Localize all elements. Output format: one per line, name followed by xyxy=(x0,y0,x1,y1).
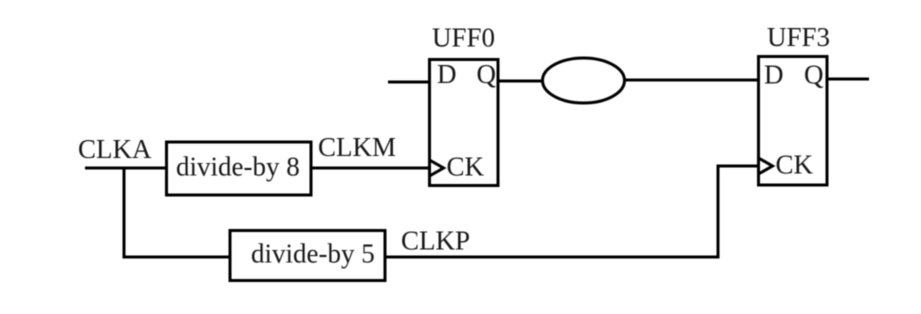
svg-text:Q: Q xyxy=(477,59,497,89)
wire CLKA input stub xyxy=(85,167,166,170)
wire UFF0 Q to cloud xyxy=(498,80,544,83)
wire CLKP vertical riser xyxy=(717,165,720,259)
svg-text:CLKM: CLKM xyxy=(318,132,396,162)
wire UFF3 Q output stub xyxy=(827,78,869,81)
svg-text:D: D xyxy=(437,59,457,89)
flip-flop UFF3 box xyxy=(759,57,828,186)
flip-flop UFF3 clock triangle xyxy=(759,158,773,174)
wire CLKP: divide-by 5 output run xyxy=(385,256,720,259)
svg-text:D: D xyxy=(764,60,784,90)
flip-flop UFF0 clock triangle xyxy=(430,160,444,176)
svg-text:CK: CK xyxy=(447,152,485,182)
wire CLKA to divide-by 5 xyxy=(123,256,231,259)
svg-text:CLKA: CLKA xyxy=(78,134,152,164)
flip-flop UFF0 box xyxy=(430,60,499,186)
svg-text:UFF3: UFF3 xyxy=(767,22,830,52)
wire CLKP to UFF3 CK xyxy=(717,165,759,168)
wire into UFF0 D input xyxy=(388,81,429,84)
svg-text:divide-by 8: divide-by 8 xyxy=(176,152,300,182)
wire CLKA branch vertical xyxy=(123,167,126,259)
divider U2 divide-by 5 box xyxy=(230,231,385,281)
combinational cloud ellipse xyxy=(543,58,625,103)
svg-text:CK: CK xyxy=(776,150,814,180)
svg-text:divide-by 5: divide-by 5 xyxy=(251,239,375,269)
svg-text:Q: Q xyxy=(804,60,824,90)
divider U1 divide-by 8 box xyxy=(167,142,312,195)
wire cloud to UFF3 D input xyxy=(623,79,758,82)
svg-text:UFF0: UFF0 xyxy=(432,23,495,53)
svg-text:CLKP: CLKP xyxy=(401,226,470,256)
wire CLKM: divide-by 8 output to UFF0 CK xyxy=(311,167,429,170)
